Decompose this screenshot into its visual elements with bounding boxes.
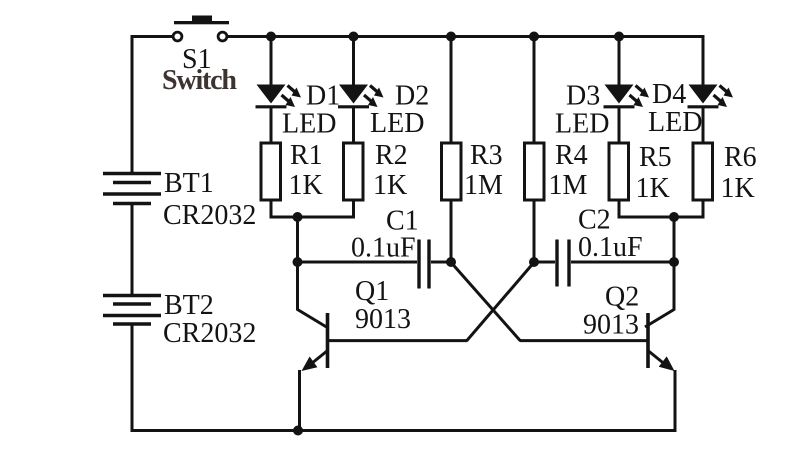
wire node D drop: [673, 217, 676, 262]
label 1K (R5): [636, 173, 670, 204]
svg-text:0.1uF: 0.1uF: [351, 233, 416, 264]
wire node A to C1: [298, 261, 418, 264]
svg-text:R2: R2: [375, 140, 408, 171]
node dot A (Q1 collector node): [293, 257, 303, 267]
svg-text:CR2032: CR2032: [163, 318, 256, 349]
wire R3 bottom drop: [450, 200, 453, 262]
node dot C (R4/C2): [529, 257, 539, 267]
wire R4 top drop: [533, 37, 536, 144]
svg-text:R6: R6: [724, 142, 757, 173]
label 1M (R4): [549, 170, 588, 201]
label 1K (R1): [289, 170, 323, 201]
label LED (D1): [282, 109, 336, 140]
wire node C to C2: [534, 261, 555, 264]
wire top rail right of switch: [228, 35, 703, 38]
wire D3 anode drop: [618, 37, 621, 86]
battery BT2: [103, 296, 161, 325]
label LED (D3): [555, 109, 609, 140]
label BT2: [164, 290, 214, 321]
resistor R4: [525, 143, 545, 200]
label C1: [386, 206, 419, 237]
transistor Q2: [645, 310, 675, 372]
LED D4: [688, 85, 734, 108]
label R1: [290, 140, 323, 171]
label S1: [182, 44, 212, 75]
wire R6 bottom drop: [702, 200, 705, 217]
wire D2 anode drop: [352, 37, 355, 86]
node dot D (Q2 collector node): [669, 257, 679, 267]
svg-text:1K: 1K: [289, 170, 323, 201]
svg-text:9013: 9013: [355, 304, 411, 335]
svg-text:D3: D3: [566, 81, 600, 112]
label 1M (R3): [464, 170, 503, 201]
svg-text:R4: R4: [555, 140, 588, 171]
wire D4 cathode to R6: [702, 108, 705, 143]
svg-text:D1: D1: [306, 81, 340, 112]
transistor Q1: [298, 310, 328, 372]
label CR2032 (BT1): [163, 200, 256, 231]
wire Q1 base diagonal to node C: [467, 264, 534, 342]
svg-text:LED: LED: [370, 108, 424, 139]
label 0.1uF (C2): [578, 232, 643, 263]
svg-text:LED: LED: [555, 109, 609, 140]
wire Q1 collector drop: [296, 262, 299, 311]
wire node A drop: [296, 217, 299, 262]
label Q2: [605, 282, 639, 313]
wire left rail top (to BT1): [131, 35, 134, 172]
wire R2 bottom drop: [352, 200, 355, 217]
svg-text:Q1: Q1: [355, 276, 389, 307]
svg-text:1K: 1K: [721, 173, 755, 204]
svg-text:1M: 1M: [464, 170, 503, 201]
label D4: [652, 79, 686, 110]
label R3: [470, 140, 503, 171]
label C2: [578, 205, 611, 236]
wire left rail between batteries: [131, 204, 134, 294]
svg-text:D2: D2: [395, 81, 429, 112]
wire top rail left segment: [132, 35, 172, 38]
svg-text:BT1: BT1: [164, 168, 214, 199]
label Switch: [162, 65, 237, 96]
svg-text:1K: 1K: [373, 170, 407, 201]
label 1K (R2): [373, 170, 407, 201]
label CR2032 (BT2): [163, 318, 256, 349]
wire bottom rail: [131, 429, 676, 432]
resistor R3: [442, 143, 462, 200]
svg-text:Switch: Switch: [162, 65, 237, 96]
wire Q2 base diagonal to node B: [452, 264, 521, 342]
label 9013 (Q1): [355, 304, 411, 335]
svg-text:Q2: Q2: [605, 282, 639, 313]
label D3: [566, 81, 600, 112]
wire C2 to node D: [571, 261, 674, 264]
label 9013 (Q2): [583, 310, 639, 341]
svg-text:D4: D4: [652, 79, 686, 110]
svg-text:0.1uF: 0.1uF: [578, 232, 643, 263]
wire Q1 base line: [329, 339, 467, 342]
svg-text:9013: 9013: [583, 310, 639, 341]
capacitor C1: [419, 240, 429, 289]
capacitor C2: [557, 240, 569, 287]
wire R3 top drop: [450, 37, 453, 144]
wire D1 cathode to R1: [270, 108, 273, 143]
wire R1-R2 bottom join: [270, 216, 356, 219]
wire R5-R6 bottom join: [618, 216, 705, 219]
wire left rail bottom (BT2 to bottom rail): [131, 325, 134, 432]
node dot R1R2 join: [293, 212, 303, 222]
label R5: [639, 142, 672, 173]
wire C1 to node B: [431, 261, 451, 264]
label R6: [724, 142, 757, 173]
wire D3 cathode to R5: [618, 108, 621, 143]
LED D2: [338, 85, 384, 108]
node dot B (R3/C1): [446, 257, 456, 267]
wire Q2 collector drop: [673, 262, 676, 311]
node dot top rail R3: [446, 32, 456, 42]
node dot Q1 emitter on bottom rail: [293, 426, 303, 436]
wire Q2 base line: [520, 339, 647, 342]
wire D4 anode drop: [702, 35, 705, 85]
wire Q1 emitter drop: [298, 370, 301, 432]
wire R4 bottom drop: [533, 200, 536, 262]
wire Q2 emitter drop: [674, 370, 677, 432]
label R2: [375, 140, 408, 171]
node dot top rail R4: [529, 32, 539, 42]
svg-text:R5: R5: [639, 142, 672, 173]
svg-text:R1: R1: [290, 140, 323, 171]
label 1K (R6): [721, 173, 755, 204]
battery BT1: [103, 174, 161, 204]
svg-text:1M: 1M: [549, 170, 588, 201]
label LED (D2): [370, 108, 424, 139]
label BT1: [164, 168, 214, 199]
resistor R1: [261, 143, 281, 200]
LED D1: [256, 85, 302, 108]
wire D1 anode drop: [270, 37, 273, 86]
wire R1 bottom drop: [270, 200, 273, 217]
label R4: [555, 140, 588, 171]
label D2: [395, 81, 429, 112]
label 0.1uF (C1): [351, 233, 416, 264]
svg-text:C2: C2: [578, 205, 611, 236]
resistor R6: [693, 143, 713, 200]
wire R5 bottom drop: [618, 200, 621, 217]
svg-text:CR2032: CR2032: [163, 200, 256, 231]
label D1: [306, 81, 340, 112]
wire D2 cathode to R2: [352, 108, 355, 143]
svg-text:BT2: BT2: [164, 290, 214, 321]
svg-text:R3: R3: [470, 140, 503, 171]
label LED (D4): [648, 107, 702, 138]
resistor R5: [609, 143, 629, 200]
svg-text:LED: LED: [282, 109, 336, 140]
resistor R2: [344, 143, 364, 200]
node dot top rail D3: [614, 32, 624, 42]
label Q1: [355, 276, 389, 307]
svg-text:1K: 1K: [636, 173, 670, 204]
node dot top rail D2: [349, 32, 359, 42]
LED D3: [604, 85, 650, 108]
node dot R5R6 join: [669, 212, 679, 222]
node dot top rail D1: [266, 32, 276, 42]
switch S1: [173, 16, 229, 41]
svg-text:LED: LED: [648, 107, 702, 138]
